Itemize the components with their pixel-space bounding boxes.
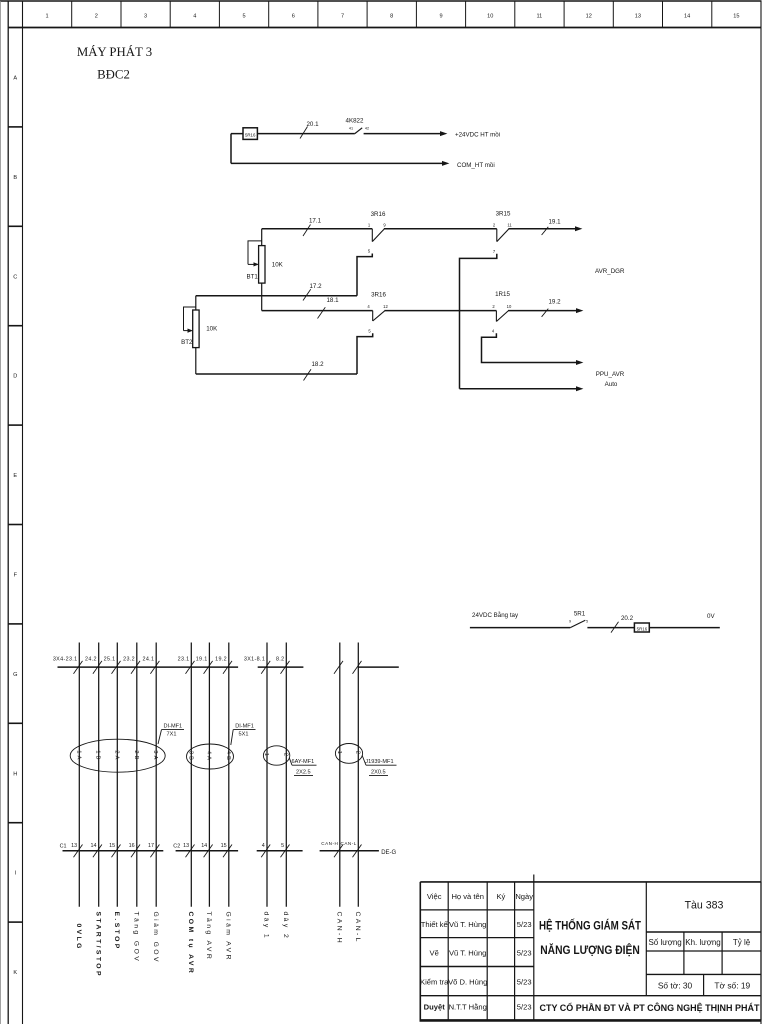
header column divider 5 (268, 1, 270, 28)
bottom bus C1 (63, 850, 164, 852)
harness wire CAN-L vertical (357, 643, 359, 907)
svg-text:Auto: Auto (605, 381, 618, 388)
svg-text:12: 12 (586, 14, 592, 20)
svg-text:4B: 4B (225, 751, 231, 762)
svg-text:Thiết kế: Thiết kế (421, 920, 449, 929)
header column divider 9 (465, 1, 467, 28)
letter row divider 8 (8, 822, 22, 824)
svg-text:1: 1 (263, 753, 269, 758)
letter row divider 1 (8, 126, 22, 128)
3R15 pin7 branch down (460, 254, 497, 389)
svg-text:5/23: 5/23 (517, 949, 532, 958)
svg-text:0V: 0V (707, 613, 715, 620)
svg-text:Ký: Ký (496, 892, 505, 901)
svg-text:4: 4 (193, 14, 196, 20)
svg-text:23.2: 23.2 (123, 657, 135, 663)
svg-text:2: 2 (95, 14, 98, 20)
svg-text:I: I (15, 871, 17, 877)
cable ellipse J1939-MF1 (335, 744, 362, 764)
svg-text:3X1-8.1: 3X1-8.1 (244, 657, 265, 663)
svg-text:9: 9 (569, 620, 571, 624)
svg-text:dây 2: dây 2 (282, 912, 289, 941)
svg-text:13: 13 (635, 14, 641, 20)
svg-text:CAN-L: CAN-L (354, 912, 361, 944)
svg-text:1B: 1B (95, 750, 101, 761)
top bus slash wire 10 (281, 661, 290, 674)
svg-text:4: 4 (262, 843, 265, 849)
wire 20.1 left segment (231, 133, 355, 135)
harness wire 0VLG vertical (78, 643, 80, 907)
svg-text:CAN-H: CAN-H (321, 841, 338, 846)
header column divider 8 (415, 1, 417, 28)
title block outer top (420, 881, 761, 883)
svg-text:3R16: 3R16 (371, 292, 386, 299)
svg-text:9: 9 (383, 223, 386, 228)
wire manual right to 0V (649, 627, 720, 629)
cable ellipse 6AY-MF1 (263, 746, 289, 765)
title block right row Tau bottom (646, 931, 761, 933)
wire slash 17.1 (303, 225, 311, 237)
svg-text:Vẽ: Vẽ (430, 949, 439, 958)
title block col middle/right (645, 882, 647, 996)
wire slash 18.1 (318, 307, 326, 318)
switch 4K822 blade (355, 128, 362, 134)
switch 5R1 blade (570, 620, 585, 627)
svg-text:AVR_DGR: AVR_DGR (595, 268, 625, 275)
svg-text:18.2: 18.2 (311, 361, 324, 368)
wire COM_HT horizontal (231, 162, 443, 164)
bottom bus slash wire 5 (150, 845, 159, 858)
top bus slash wire 1 (74, 661, 83, 674)
svg-text:Tỷ lệ: Tỷ lệ (733, 938, 751, 947)
svg-text:2: 2 (354, 751, 360, 756)
svg-text:4: 4 (367, 304, 370, 309)
wire Auto horizontal (460, 388, 578, 390)
letter row divider 6 (8, 623, 22, 625)
harness wire CAN-H vertical (339, 643, 341, 907)
svg-text:5R16: 5R16 (637, 626, 648, 631)
bottom bus slash wire 7 (204, 845, 213, 858)
svg-text:7: 7 (493, 249, 496, 254)
header row bottom line (8, 27, 761, 29)
svg-text:H: H (13, 771, 17, 777)
svg-text:Họ và tên: Họ và tên (451, 892, 484, 901)
svg-text:BT1: BT1 (246, 274, 258, 281)
wire slash 20.2 (611, 622, 619, 633)
bottom bus slash wire 3 (112, 845, 121, 858)
title block col soluong/khluong (683, 932, 685, 974)
title block col Ky/Ngay (514, 882, 516, 1021)
harness wire Tăng GOV vertical (136, 643, 138, 907)
svg-text:2: 2 (492, 304, 495, 309)
svg-text:5R16: 5R16 (245, 133, 256, 138)
wire 18.2 (196, 373, 357, 375)
svg-text:41: 41 (349, 127, 353, 131)
wire slash 17.2 (303, 289, 311, 300)
svg-text:2: 2 (282, 753, 288, 758)
svg-text:5/23: 5/23 (517, 920, 532, 929)
svg-text:START/STOP: START/STOP (94, 912, 101, 978)
border frame letter column line (22, 1, 24, 1024)
wire manual mid (587, 627, 634, 629)
border frame top line (0, 0, 762, 2)
svg-text:14: 14 (201, 843, 207, 849)
svg-text:HỆ THỐNG GIÁM SÁT: HỆ THỐNG GIÁM SÁT (539, 919, 641, 933)
potentiometer BT1 (248, 229, 265, 311)
svg-text:1: 1 (368, 223, 371, 228)
svg-text:5/23: 5/23 (517, 1003, 532, 1012)
svg-text:15: 15 (733, 14, 739, 20)
svg-text:Duyệt: Duyệt (424, 1003, 446, 1012)
svg-text:16: 16 (129, 843, 135, 849)
svg-text:NĂNG LƯỢNG ĐIỆN: NĂNG LƯỢNG ĐIỆN (540, 944, 640, 957)
svg-text:0VLG: 0VLG (75, 924, 82, 951)
svg-text:14: 14 (91, 843, 97, 849)
cable ellipse DI-MF1 5x1 (187, 744, 234, 769)
svg-text:1A: 1A (75, 750, 81, 761)
arrow COM_HT moi (442, 161, 449, 166)
bottom bus slash wire 12 (353, 845, 362, 858)
title block left edge (419, 882, 421, 1021)
header column divider 7 (366, 1, 368, 28)
svg-text:7: 7 (341, 14, 344, 20)
title block col Ngay/middle (with stub above) (533, 875, 535, 1021)
svg-text:9: 9 (439, 14, 442, 20)
svg-text:5: 5 (368, 328, 371, 333)
svg-text:19.2: 19.2 (548, 299, 561, 306)
title block col khluong/tyle (721, 932, 723, 974)
top bus slash wire 11 (334, 661, 343, 674)
svg-text:D: D (13, 374, 17, 380)
svg-text:6AY-MF1: 6AY-MF1 (292, 759, 315, 765)
svg-text:1: 1 (46, 14, 49, 20)
title block right row quantity bottom (646, 950, 761, 952)
svg-text:8: 8 (390, 14, 393, 20)
wire slash 18.2 (304, 369, 312, 380)
svg-text:10: 10 (507, 304, 512, 309)
bottom bus slash wire 9 (261, 845, 270, 858)
svg-text:13: 13 (71, 843, 77, 849)
top bus slash wire 3 (112, 661, 121, 674)
header column divider 3 (169, 1, 171, 28)
wire 18.1 (262, 310, 373, 312)
title block row line 3 (420, 966, 534, 968)
title block right edge (760, 882, 762, 1021)
svg-text:Việc: Việc (427, 892, 442, 901)
header column divider 2 (120, 1, 122, 28)
letter row divider 7 (8, 722, 22, 724)
relay contact 1R15 stub and blade (496, 311, 508, 322)
svg-text:24VDC Bằng tay: 24VDC Bằng tay (472, 612, 519, 619)
svg-text:3A: 3A (152, 750, 158, 761)
svg-text:15: 15 (109, 843, 115, 849)
top bus CAN group (358, 666, 399, 668)
3R16 pin5 branch to 17.2 (357, 254, 372, 296)
svg-text:Tăng AVR: Tăng AVR (205, 912, 212, 962)
title block col soto/toso (703, 974, 705, 995)
svg-text:Võ D. Hùng: Võ D. Hùng (448, 978, 487, 987)
bottom bus slash wire 4 (131, 845, 140, 858)
potentiometer BT2 (184, 296, 200, 374)
svg-text:2B: 2B (133, 750, 139, 761)
svg-text:10: 10 (487, 14, 493, 20)
svg-text:E: E (13, 473, 17, 479)
svg-text:20.2: 20.2 (621, 615, 634, 622)
svg-text:A: A (13, 76, 17, 82)
svg-text:COM_HT mồi: COM_HT mồi (457, 162, 495, 169)
svg-text:23.1: 23.1 (178, 657, 190, 663)
svg-text:3X4-23.1: 3X4-23.1 (53, 657, 78, 663)
svg-text:5R1: 5R1 (574, 611, 586, 618)
svg-text:5X1: 5X1 (239, 731, 249, 737)
svg-text:17.1: 17.1 (309, 218, 322, 225)
letter row divider 3 (8, 325, 22, 327)
svg-text:13: 13 (183, 843, 189, 849)
svg-text:+24VDC HT mồi: +24VDC HT mồi (455, 131, 500, 138)
svg-text:COM tụ AVR: COM tụ AVR (187, 912, 194, 976)
svg-text:CTY CỔ PHẦN ĐT VÀ PT CÔNG NGHỆ: CTY CỔ PHẦN ĐT VÀ PT CÔNG NGHỆ THỊNH PHÁ… (540, 1002, 760, 1013)
svg-text:17.2: 17.2 (309, 283, 322, 290)
svg-text:1: 1 (336, 751, 342, 756)
harness wire dây 1 vertical (266, 643, 268, 907)
svg-text:PPU_AVR: PPU_AVR (596, 371, 625, 378)
svg-text:Kiểm tra: Kiểm tra (420, 978, 449, 987)
svg-text:2A: 2A (113, 750, 119, 761)
top bus slash wire 9 (261, 661, 270, 674)
bottom bus slash wire 10 (281, 845, 290, 858)
bottom bus slash wire 8 (223, 845, 232, 858)
top bus slash wire 5 (150, 661, 159, 674)
svg-text:Giảm AVR: Giảm AVR (225, 912, 232, 962)
bottom bus slash wire 11 (334, 845, 343, 858)
svg-text:C2: C2 (173, 843, 180, 849)
top bus slash wire 6 (186, 661, 195, 674)
resistor box 5R16 (top) (243, 128, 257, 140)
title block right row empty bottom (646, 973, 761, 975)
cable callout J1939-MF1 2X0.5 (362, 756, 396, 776)
svg-text:MÁY PHÁT 3: MÁY PHÁT 3 (77, 45, 152, 59)
header column divider 12 (612, 1, 614, 28)
title block col Viec/Ho (447, 882, 449, 1021)
svg-text:Tàu 383: Tàu 383 (685, 899, 724, 911)
svg-text:10K: 10K (272, 261, 284, 268)
svg-text:5: 5 (586, 620, 588, 624)
title block row line 4 (full) (420, 995, 761, 997)
svg-text:J1939-MF1: J1939-MF1 (365, 759, 393, 765)
svg-text:Tờ số: 19: Tờ số: 19 (714, 981, 750, 991)
svg-text:dây 1: dây 1 (263, 912, 270, 941)
svg-text:7X1: 7X1 (167, 731, 177, 737)
svg-text:DI-MF1: DI-MF1 (235, 724, 254, 730)
svg-text:8.2: 8.2 (276, 657, 285, 663)
harness wire dây 2 vertical (285, 643, 287, 907)
svg-text:Kh. lượng: Kh. lượng (685, 938, 721, 947)
letter row divider 4 (8, 424, 22, 426)
svg-text:2X2.5: 2X2.5 (296, 769, 311, 775)
svg-text:3R16: 3R16 (371, 211, 386, 218)
harness wire START/STOP vertical (98, 643, 100, 907)
wire 3R16 to 1R15 (384, 310, 496, 312)
svg-text:K: K (13, 970, 17, 976)
svg-text:15: 15 (221, 843, 227, 849)
svg-text:Vũ T. Hùng: Vũ T. Hùng (449, 949, 486, 958)
arrow Auto (576, 386, 583, 391)
bottom bus slash wire 1 (74, 845, 83, 858)
relay contact 3R16 upper stub and blade (372, 229, 384, 242)
cable callout DI-MF1 5X1 (231, 724, 256, 745)
svg-text:12: 12 (383, 304, 388, 309)
bottom bus slash wire 6 (186, 845, 195, 858)
svg-text:C1: C1 (60, 843, 67, 849)
svg-text:4K822: 4K822 (346, 118, 364, 125)
svg-text:10K: 10K (206, 326, 218, 333)
header column divider 13 (662, 1, 664, 28)
border frame right line (760, 1, 762, 1024)
wire slash 19.2 (542, 309, 549, 317)
harness wire Giảm GOV vertical (155, 643, 157, 907)
svg-text:5: 5 (281, 843, 284, 849)
svg-text:C: C (13, 274, 17, 280)
top bus slash wire 8 (223, 661, 232, 674)
svg-text:19.2: 19.2 (215, 657, 227, 663)
svg-text:11: 11 (507, 223, 512, 228)
header column divider 10 (514, 1, 516, 28)
svg-text:3R15: 3R15 (496, 211, 511, 218)
svg-text:Tăng GOV: Tăng GOV (133, 912, 140, 964)
wire 19.2 (508, 310, 577, 312)
title block bottom thick border (420, 1019, 762, 1022)
svg-text:19.1: 19.1 (196, 657, 208, 663)
arrow 19.2 (576, 308, 583, 313)
cable ellipse DI-MF1 7x1 (70, 739, 165, 772)
wire manual 24VDC left (470, 627, 570, 629)
harness wire Giảm AVR vertical (228, 643, 230, 907)
harness wire E.STOP vertical (116, 643, 118, 907)
svg-text:19.1: 19.1 (548, 218, 561, 225)
svg-text:4: 4 (492, 328, 495, 333)
top bus slash wire 7 (204, 661, 213, 674)
top bus 3X4 group (58, 666, 239, 668)
svg-text:BT2: BT2 (181, 339, 193, 346)
arrow +24VDC HT moi (440, 131, 447, 136)
svg-text:14: 14 (684, 14, 690, 20)
svg-text:Vũ T. Hùng: Vũ T. Hùng (449, 920, 486, 929)
wire 3R16 to 3R15 (384, 228, 497, 230)
svg-text:N.T.T Hằng: N.T.T Hằng (449, 1003, 487, 1012)
svg-text:DI-MF1: DI-MF1 (164, 724, 183, 730)
header column divider 1 (71, 1, 73, 28)
wire slash 19.1 (542, 227, 549, 235)
svg-text:24.1: 24.1 (142, 657, 154, 663)
header column divider 14 (711, 1, 713, 28)
letter row divider 9 (8, 921, 22, 923)
svg-text:CAN-H: CAN-H (336, 912, 343, 946)
bottom bus pins 4-5 (257, 850, 303, 852)
top bus slash wire 2 (93, 661, 102, 674)
svg-text:F: F (14, 573, 18, 579)
cable callout DI-MF1 7X1 (158, 724, 184, 744)
svg-text:11: 11 (536, 14, 542, 20)
bottom bus C2 (176, 850, 239, 852)
svg-text:24.2: 24.2 (85, 657, 97, 663)
resistor box 5R16 (bottom) (634, 623, 649, 632)
svg-text:Ngày: Ngày (515, 892, 533, 901)
svg-text:G: G (13, 672, 17, 678)
border frame left line (7, 1, 9, 1024)
bottom bus slash wire 2 (93, 845, 102, 858)
cable callout 6AY-MF1 2X2.5 (289, 758, 316, 776)
harness wire COM tụ AVR vertical (190, 643, 192, 907)
svg-text:BĐC2: BĐC2 (97, 68, 130, 82)
svg-text:5: 5 (368, 249, 371, 254)
svg-text:2X0.5: 2X0.5 (371, 769, 386, 775)
svg-text:4A: 4A (205, 751, 211, 762)
wire 19.1 (508, 228, 576, 230)
svg-text:17: 17 (148, 843, 154, 849)
letter row divider 5 (8, 524, 22, 526)
wire COM_HT vertical (230, 134, 232, 164)
svg-text:42: 42 (365, 127, 369, 131)
svg-text:B: B (13, 175, 17, 181)
svg-text:E.STOP: E.STOP (113, 912, 120, 951)
svg-text:18.1: 18.1 (326, 297, 339, 304)
title block row line 1 (420, 909, 534, 911)
svg-text:20.1: 20.1 (306, 121, 319, 128)
top bus 3X1 group (258, 666, 304, 668)
arrow 19.1 (575, 226, 582, 231)
svg-text:6: 6 (292, 14, 295, 20)
letter row divider 2 (8, 225, 22, 227)
header column divider 11 (563, 1, 565, 28)
wire 17.2 (196, 295, 357, 297)
border frame outer left line (0, 1, 2, 1024)
svg-text:CAN-L: CAN-L (341, 841, 357, 846)
svg-text:Số tờ: 30: Số tờ: 30 (658, 981, 693, 991)
relay contact 3R16 lower stub and blade (373, 311, 385, 321)
wire 17.1 (262, 228, 373, 230)
svg-text:1R15: 1R15 (495, 291, 510, 298)
svg-text:5: 5 (242, 14, 245, 20)
svg-text:25.1: 25.1 (104, 657, 116, 663)
title block col Ho/Ky (486, 882, 488, 1021)
relay contact 3R15 stub and blade (497, 229, 509, 242)
svg-text:DE-G: DE-G (381, 850, 396, 856)
harness wire Tăng AVR vertical (208, 643, 210, 907)
bottom bus DE-G (320, 850, 379, 852)
svg-text:3: 3 (144, 14, 147, 20)
top bus slash wire 4 (131, 661, 140, 674)
wire 20.1 right segment (364, 133, 441, 135)
header column divider 6 (317, 1, 319, 28)
svg-text:3B: 3B (187, 751, 193, 762)
svg-text:Giảm GOV: Giảm GOV (152, 912, 159, 964)
title block row line 2 (420, 937, 534, 939)
svg-text:5/23: 5/23 (517, 978, 532, 987)
1R15 pin4 branch PPU_AVR (482, 333, 578, 362)
arrow PPU_AVR (576, 360, 583, 365)
svg-text:Số lượng: Số lượng (648, 938, 681, 947)
header column divider 4 (218, 1, 220, 28)
top bus slash wire 12 (353, 661, 362, 674)
svg-text:2: 2 (493, 223, 496, 228)
3R16 lower pin5 branch to 18.2 (357, 333, 373, 374)
wire slash 20.1 (300, 127, 308, 139)
